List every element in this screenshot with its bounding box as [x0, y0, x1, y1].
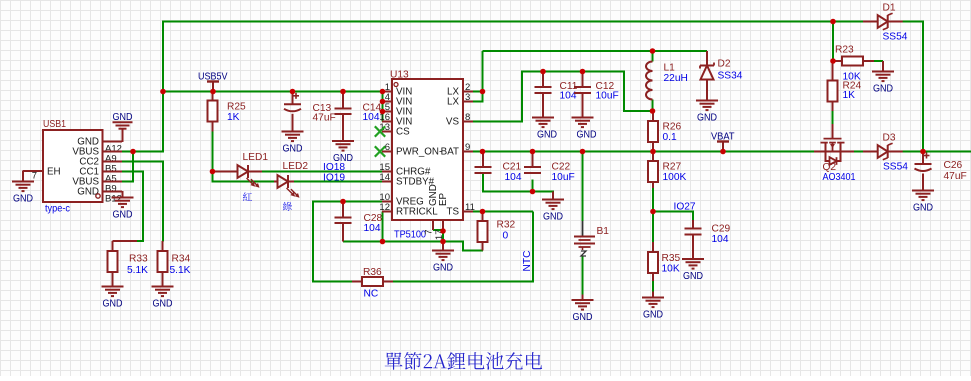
ground below USB1 B12 pin	[112, 191, 134, 220]
svg-text:R32: R32	[497, 220, 516, 231]
LED LED1 red	[213, 152, 269, 188]
svg-text:104: 104	[505, 172, 522, 183]
capacitor C21 104	[475, 152, 522, 184]
resistor R33	[108, 241, 149, 287]
ground below C12	[572, 117, 594, 119]
svg-text:SS54: SS54	[883, 162, 908, 173]
svg-text:L1: L1	[664, 63, 676, 74]
svg-text:EP: EP	[438, 192, 449, 206]
pin B12 GND of USB1	[77, 187, 122, 205]
wire D1 cathode to right corner	[902, 21, 924, 23]
svg-text:GND: GND	[543, 211, 563, 222]
pin 12 RTRICKL of U13	[379, 202, 438, 218]
svg-text:IO19: IO19	[323, 173, 345, 184]
svg-text:GND: GND	[103, 298, 123, 309]
pin 15 CHRG# of U13	[379, 162, 430, 178]
capacitor C22 10uF	[524, 152, 575, 184]
capacitor C28 104	[335, 202, 383, 242]
wire top bus from left column to D1	[163, 21, 863, 23]
wire LED2 output to STDBY# pin 14	[294, 181, 392, 183]
pin 11 TS of U13	[446, 202, 474, 218]
svg-text:C29: C29	[712, 224, 731, 235]
pin 7 EH of USB1	[23, 167, 61, 182]
ground at R23	[872, 61, 894, 94]
diode D1 SS54	[863, 3, 908, 43]
wire USB CC2 B5 to R34	[122, 162, 163, 242]
capacitor C29 104	[685, 220, 731, 259]
resistor R25	[208, 92, 247, 132]
svg-text:R25: R25	[227, 102, 246, 113]
pin 6 PWR_ON- of U13	[382, 142, 442, 158]
wire LED1 output to CHRG# pin 15	[262, 171, 392, 173]
wire R24 to Q2 gate	[832, 110, 834, 124]
net flag VBAT	[711, 132, 735, 152]
wire L1 bottom stub	[652, 100, 654, 112]
svg-text:D1: D1	[883, 3, 896, 14]
U13 pin 1 indicator circle	[394, 83, 398, 87]
svg-text:10K: 10K	[662, 264, 680, 275]
resistor R24 1K	[828, 61, 862, 111]
svg-text:C21: C21	[503, 162, 522, 173]
svg-text:type-c: type-c	[45, 204, 70, 215]
svg-text:1K: 1K	[843, 90, 856, 101]
pin A12 GND of USB1	[77, 137, 122, 155]
svg-text:GND: GND	[153, 298, 173, 309]
svg-text:GND: GND	[577, 129, 597, 140]
svg-text:R33: R33	[129, 254, 148, 265]
wire RTRICKL pin 12 down	[382, 212, 384, 242]
wire BAT rail Q2 to D3	[854, 151, 863, 153]
svg-text:10uF: 10uF	[552, 172, 575, 183]
pin 4 VIN of U13	[382, 92, 412, 108]
wire R25 bottom to LED node	[212, 131, 214, 173]
LED1 color label red	[243, 192, 252, 201]
pin 13 CS of U13	[379, 122, 410, 138]
svg-text:1K: 1K	[227, 112, 240, 123]
junction dots top bus	[830, 19, 836, 25]
pin A9 VBUS of USB1	[72, 147, 122, 165]
net flag USB5V	[198, 72, 228, 92]
svg-text:BAT: BAT	[441, 147, 459, 158]
no-connect X on pin 6 PWR_ON-	[375, 146, 385, 156]
pin 10 VREG of U13	[379, 192, 423, 208]
svg-text:EH: EH	[47, 167, 61, 178]
svg-text:USB1: USB1	[43, 119, 66, 130]
svg-text:B12: B12	[105, 194, 122, 205]
svg-text:R35: R35	[662, 253, 681, 264]
transistor Q2 AO3401 PMOS	[814, 124, 856, 183]
svg-text:IO27: IO27	[674, 202, 696, 213]
svg-text:TP5100: TP5100	[394, 230, 426, 241]
diode D3 SS54	[863, 133, 908, 173]
svg-text:104: 104	[363, 112, 380, 123]
pin 2 LX of U13	[447, 82, 473, 98]
battery B1	[574, 221, 609, 256]
LED2 color label green	[283, 202, 292, 211]
resistor R32 0	[478, 212, 516, 251]
capacitor C26 47uF electrolytic	[915, 152, 967, 191]
inductor L1 22uH	[646, 51, 688, 100]
wire USB VBUS A9 to riser	[122, 151, 164, 153]
svg-text:NC: NC	[364, 289, 379, 300]
wire USB5V bus	[162, 91, 383, 93]
svg-text:R26: R26	[663, 122, 682, 133]
svg-text:GND: GND	[913, 202, 933, 213]
wire R32 top junction	[482, 212, 484, 222]
wire USB CC1 A5 to R33	[122, 172, 143, 242]
svg-text:47uF: 47uF	[313, 113, 336, 124]
wire VIN pins tie vertical	[382, 92, 384, 122]
svg-text:B1: B1	[597, 226, 610, 237]
wire IO27 node to R35	[652, 212, 654, 243]
pin 3 LX of U13	[447, 92, 473, 108]
pin A5 CC1 of USB1	[79, 167, 122, 185]
svg-text:5.1K: 5.1K	[127, 265, 148, 276]
ground at USB1 EH pin	[12, 171, 34, 205]
svg-text:GND: GND	[13, 193, 33, 204]
svg-text:R36: R36	[363, 267, 382, 278]
svg-text:LED2: LED2	[283, 161, 309, 172]
svg-text:3: 3	[465, 92, 470, 103]
resistor R34	[158, 241, 191, 287]
wire R27 bottom to IO27 node	[652, 186, 654, 212]
ground below C11	[532, 117, 554, 119]
ground below C29	[682, 258, 704, 260]
wire BAT rail from pin 9 to Q2	[473, 151, 814, 153]
connector USB1 body	[43, 130, 103, 202]
ground above USB1 A12 pin	[113, 112, 133, 142]
wire NTC loop bottom to R36 right	[393, 281, 534, 283]
diode D2 SS34 catch diode	[700, 51, 743, 101]
svg-text:22uH: 22uH	[664, 73, 688, 84]
resistor R27 100K	[648, 152, 686, 189]
pin 5 VIN of U13	[382, 102, 412, 118]
pin 14 STDBY# of U13	[379, 172, 434, 188]
wire LX pins tie and riser	[473, 92, 483, 102]
svg-text:R27: R27	[663, 162, 682, 173]
ground below R34	[152, 286, 174, 288]
ground below B1	[572, 295, 594, 323]
svg-text:GND: GND	[697, 112, 717, 123]
svg-text:104: 104	[364, 223, 381, 234]
svg-text:11: 11	[465, 202, 475, 213]
wire USB VBUS B9 jog	[122, 152, 133, 182]
wire VREG riser and top to pin 10	[313, 202, 392, 283]
ground below C14	[332, 140, 354, 142]
svg-text:C26: C26	[944, 160, 963, 171]
resistor R35 10K	[648, 242, 681, 281]
wire B1 top	[582, 152, 584, 222]
svg-text:GND: GND	[537, 129, 557, 140]
svg-text:GND: GND	[873, 83, 893, 94]
svg-text:D2: D2	[718, 59, 731, 70]
ground below R35	[652, 292, 654, 298]
svg-text:LED1: LED1	[243, 152, 269, 163]
no-connect X on pin 13 CS	[375, 126, 385, 136]
svg-text:GND: GND	[333, 153, 353, 164]
svg-text:RTRICKL: RTRICKL	[396, 207, 438, 218]
pin B9 VBUS of USB1	[72, 177, 122, 195]
svg-text:14: 14	[379, 172, 390, 183]
wire IO27 node to C29	[653, 212, 693, 221]
LED LED2 green	[274, 161, 308, 198]
svg-text:100K: 100K	[663, 172, 687, 183]
pin 16 VIN of U13	[379, 112, 412, 128]
capacitor C14 104	[335, 92, 382, 142]
svg-text:PWR_ON-: PWR_ON-	[396, 147, 442, 158]
wire LX node to D2	[653, 50, 708, 52]
svg-text:SS54: SS54	[883, 32, 908, 43]
svg-text:U13: U13	[390, 70, 409, 81]
wire B1 bottom to GND	[582, 256, 584, 295]
resistor R23 10K	[833, 45, 874, 83]
pin B5 CC2 of USB1	[79, 157, 122, 175]
svg-text:0.1: 0.1	[663, 132, 677, 143]
title text	[385, 352, 542, 370]
svg-text:GND: GND	[683, 271, 703, 282]
svg-text:7: 7	[424, 230, 435, 235]
svg-text:C22: C22	[552, 162, 571, 173]
wire C28 bottom row jog to R32 bottom	[443, 242, 483, 251]
svg-text:12: 12	[379, 202, 390, 213]
svg-text:10uF: 10uF	[596, 91, 619, 102]
ground below C13	[282, 131, 304, 133]
resistor R26 0.1 sense	[648, 111, 682, 152]
pin 1 VIN of U13	[382, 82, 412, 98]
wire R23 GND stub	[874, 60, 883, 62]
svg-text:CS: CS	[396, 127, 410, 138]
svg-text:AO3401: AO3401	[823, 172, 856, 183]
svg-text:47uF: 47uF	[944, 171, 967, 182]
wire TS pin 11 to NTC loop	[473, 211, 533, 213]
pin 8 VS of U13	[446, 112, 473, 128]
svg-text:VS: VS	[446, 117, 460, 128]
svg-text:SS34: SS34	[718, 71, 743, 82]
svg-text:104: 104	[712, 234, 729, 245]
svg-text:NTC: NTC	[522, 251, 533, 272]
svg-text:GND: GND	[113, 209, 133, 220]
ground below C22	[542, 192, 564, 223]
pin 9 BAT of U13	[441, 142, 473, 158]
svg-text:5.1K: 5.1K	[170, 265, 191, 276]
svg-text:GND: GND	[113, 112, 133, 123]
wire R23 R24 junction from top bus	[832, 22, 834, 62]
pin 17 EP of U13	[434, 192, 449, 240]
wire U13 GND EP tie	[433, 230, 443, 242]
wire right vertical down to output rail	[922, 22, 924, 152]
wire left vertical VBUS riser	[162, 21, 164, 153]
wire R35 bottom to GND	[652, 281, 654, 292]
capacitor C11 104	[535, 72, 578, 118]
wire R36 left to VREG riser	[313, 281, 352, 283]
wire VS pin 8 to output top rail	[473, 72, 653, 122]
ground below D2	[696, 100, 718, 102]
wire LX node to L1 top	[483, 50, 654, 52]
wire C21 C22 bottom to GND	[483, 174, 553, 194]
wire C28 bottom row to U13 GND	[343, 241, 443, 243]
svg-text:LX: LX	[447, 97, 459, 108]
ground at U13 GND EP pins	[432, 242, 454, 274]
svg-text:GND: GND	[573, 312, 593, 323]
capacitor C13 47uF electrolytic	[284, 92, 336, 132]
resistor R36 NC	[352, 267, 393, 300]
svg-text:TS: TS	[446, 207, 459, 218]
svg-text:0: 0	[503, 231, 509, 242]
wire D3 cathode to output node and right edge	[902, 151, 971, 153]
svg-text:7: 7	[32, 171, 37, 182]
svg-text:9: 9	[465, 142, 470, 153]
pin polarity circle of USB1	[96, 194, 100, 198]
ground below C26	[912, 190, 934, 192]
svg-text:GND: GND	[283, 143, 303, 154]
svg-text:GND: GND	[643, 309, 663, 320]
svg-text:R34: R34	[172, 254, 191, 265]
capacitor C12 10uF	[574, 72, 619, 118]
svg-text:D3: D3	[883, 133, 896, 144]
svg-text:8: 8	[465, 112, 470, 123]
pin 7 GND of U13	[424, 184, 440, 235]
ground below R33	[102, 286, 124, 288]
svg-text:GND: GND	[433, 262, 453, 273]
wire LED node down to LED2 row	[213, 172, 275, 182]
svg-text:R23: R23	[835, 45, 854, 56]
IC U13 TP5100 body	[392, 79, 463, 220]
wire NTC loop right side down	[532, 212, 534, 282]
